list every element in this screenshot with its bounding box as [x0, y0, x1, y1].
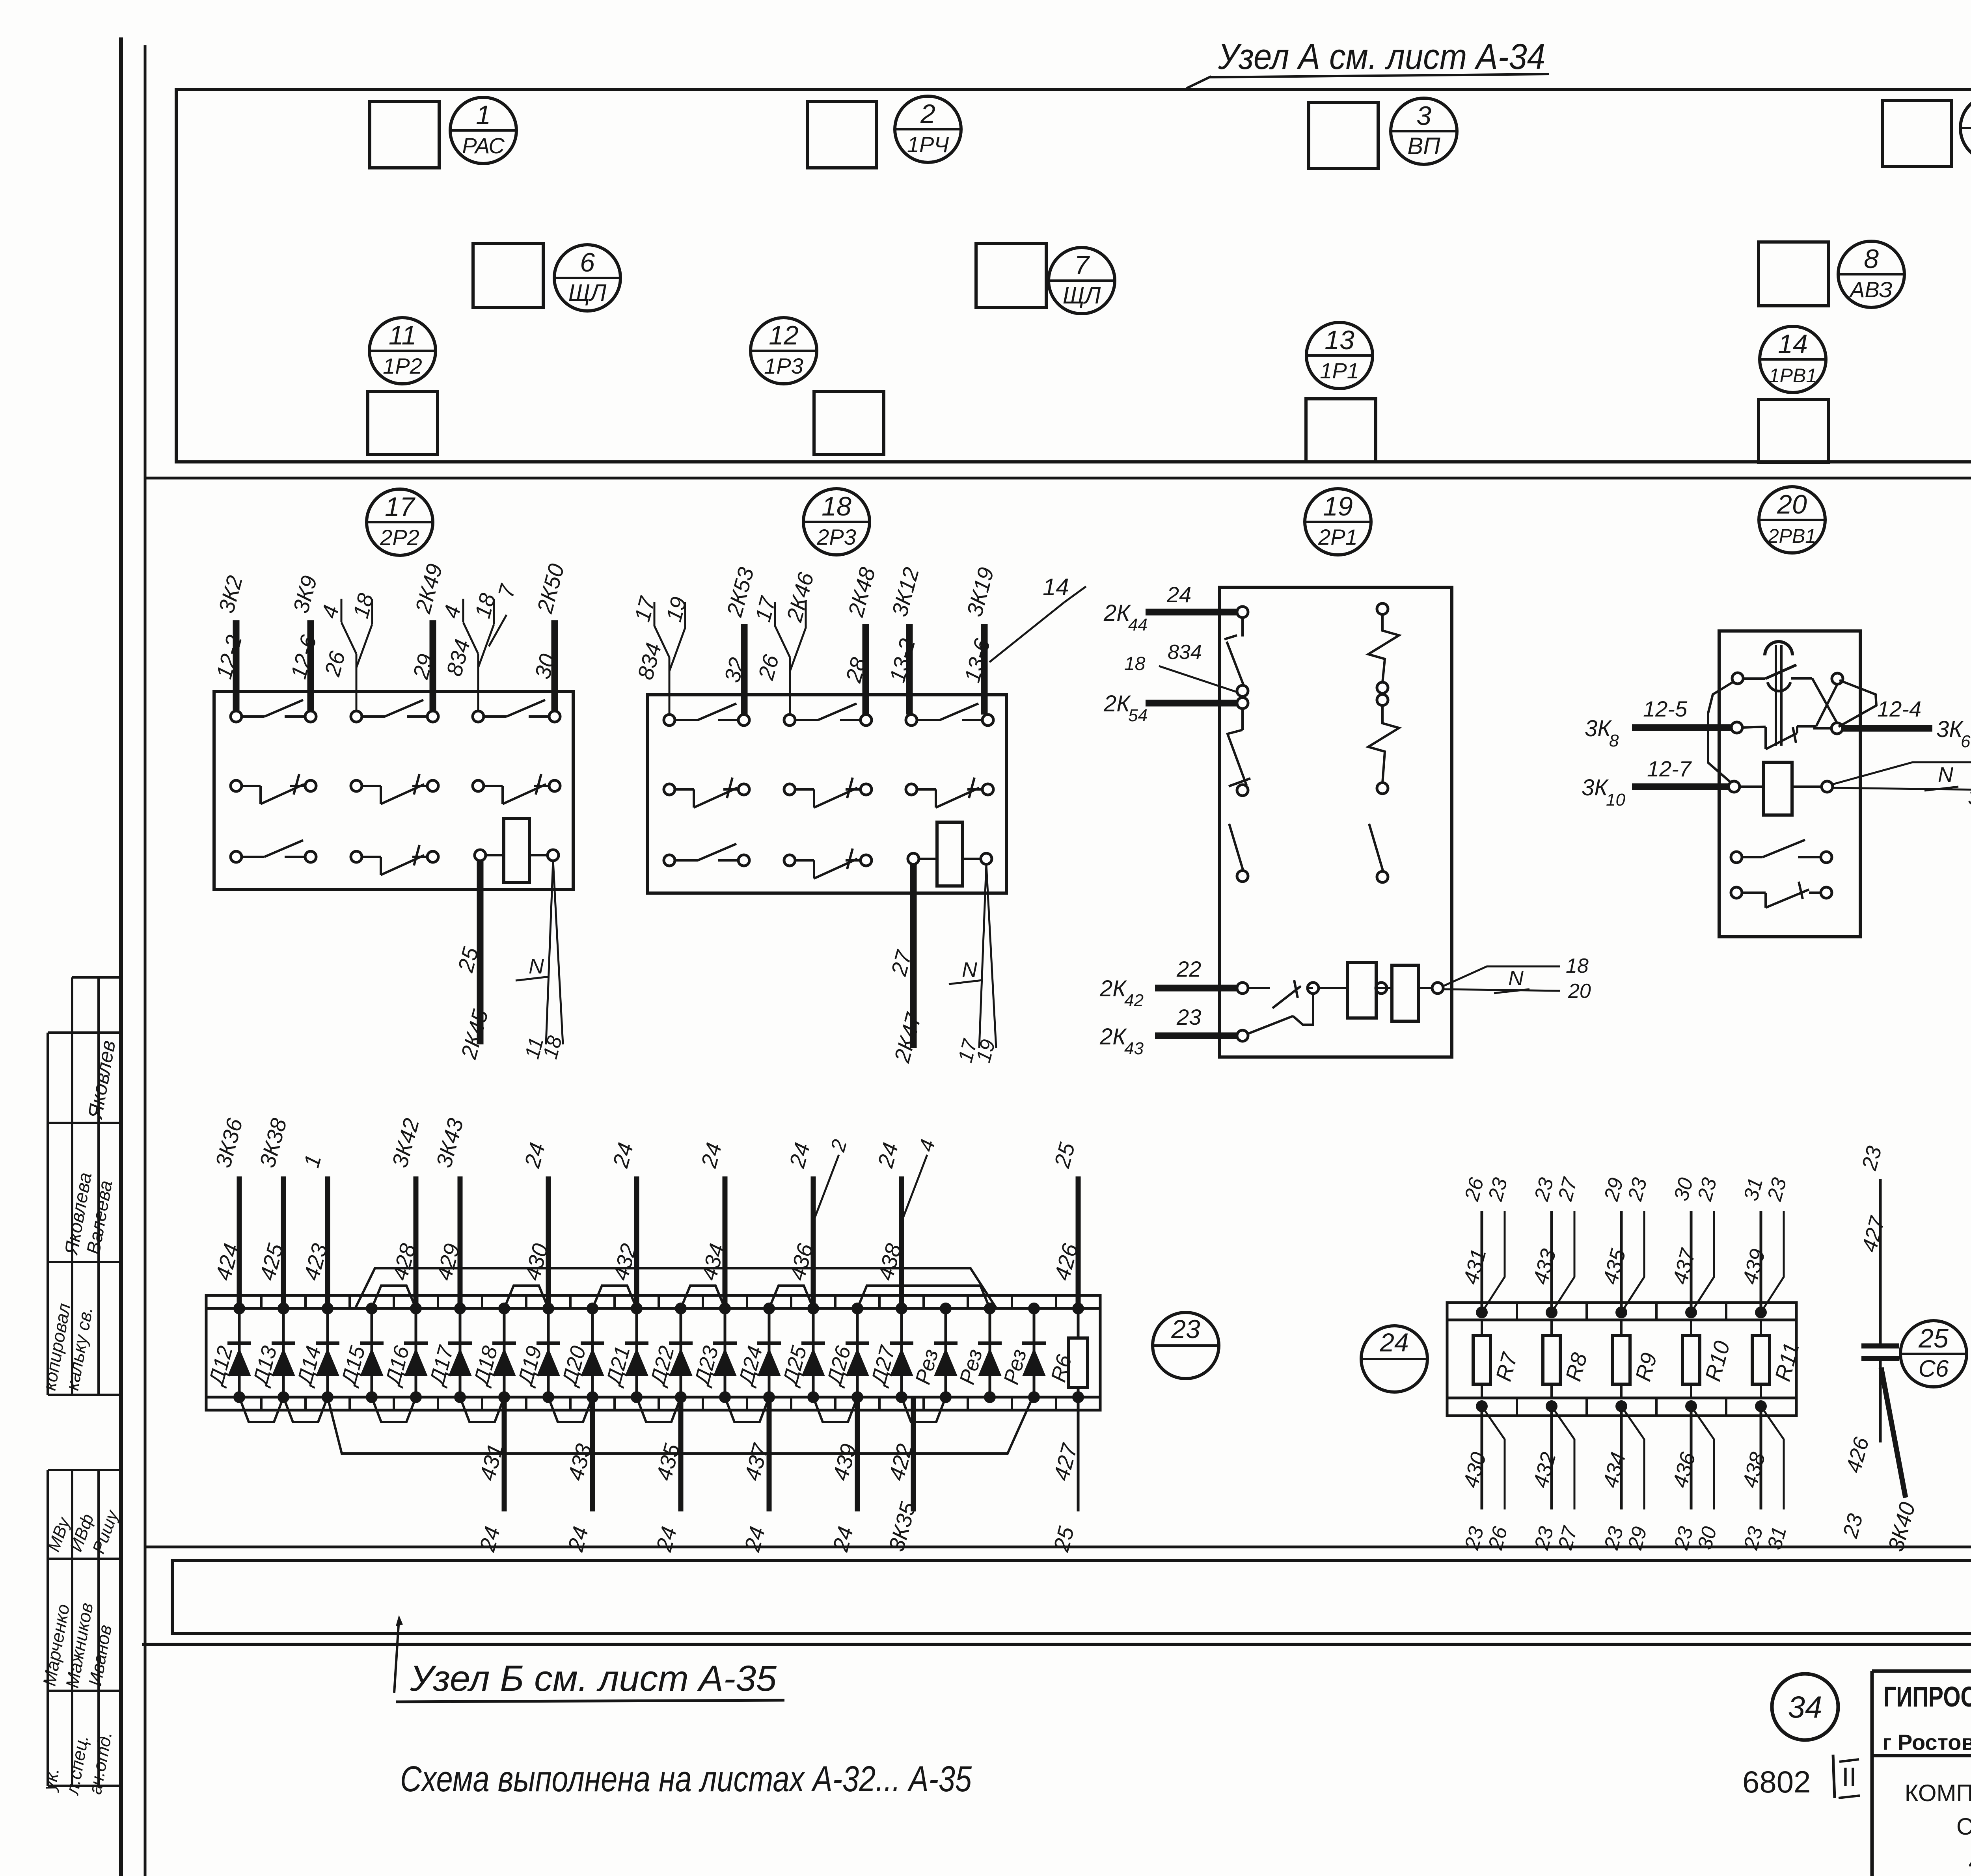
diode Рез (cell 16)	[911, 1303, 958, 1403]
resistor R11	[1752, 1306, 1804, 1412]
id circle 8/АВЗ	[1838, 241, 1904, 307]
svg-text:1Р2: 1Р2	[383, 354, 422, 378]
id circle 4/2РЧ	[1960, 95, 1971, 161]
id circle 3/ВП	[1391, 98, 1457, 164]
svg-text:4К - 10А: 4К - 10А	[1969, 1849, 1971, 1875]
wire 422/3К35 from diode array bottom (cell 15)	[884, 1397, 921, 1554]
relay 17/2P2 contact box	[211, 561, 573, 1062]
svg-text:14: 14	[1778, 329, 1808, 359]
svg-text:1РЧ: 1РЧ	[907, 132, 949, 157]
id circle 20/2РВ1	[1759, 487, 1825, 553]
id circle 13/1Р1	[1306, 322, 1373, 389]
jumper wires above diode array	[355, 1268, 997, 1308]
svg-text:2К: 2К	[1103, 600, 1131, 626]
svg-text:12: 12	[769, 320, 799, 350]
wire 426/25 to diode array top (cell 19)	[1049, 1140, 1083, 1308]
wires 437/30/23 to R10 top	[1668, 1175, 1721, 1312]
resistor R8	[1543, 1306, 1592, 1412]
svg-text:12-5: 12-5	[1643, 696, 1688, 721]
svg-text:6802: 6802	[1742, 1764, 1811, 1799]
svg-text:44: 44	[1128, 615, 1148, 635]
svg-text:АВЗ: АВЗ	[1849, 277, 1893, 302]
id circle 18/2Р3	[803, 489, 870, 555]
wire 429/3К43 to diode array top (cell 5)	[431, 1116, 468, 1308]
wires 439/31/23 to R11 top	[1738, 1175, 1791, 1312]
resistor R7	[1473, 1306, 1522, 1412]
panel outline (top frame)	[176, 89, 1971, 462]
wires 434/23/29 from R9 bottom	[1598, 1406, 1652, 1552]
svg-text:43: 43	[1124, 1039, 1144, 1058]
svg-text:N: N	[1508, 966, 1524, 990]
svg-text:12-7: 12-7	[1647, 756, 1692, 781]
id circle 1/РАС	[450, 97, 516, 164]
wire 2K44/24 into relay 19	[1146, 609, 1237, 616]
svg-text:г Ростов-на-Дону 1976 г.: г Ростов-на-Дону 1976 г.	[1882, 1730, 1971, 1755]
apparatus square 3/ВП	[1309, 102, 1378, 169]
svg-text:2К: 2К	[1099, 976, 1127, 1001]
svg-text:2Р3: 2Р3	[816, 525, 856, 549]
signature table grid	[48, 977, 121, 1786]
svg-text:Узел А см. лист А-34: Узел А см. лист А-34	[1218, 37, 1545, 77]
diode Д15 (cell 3)	[336, 1303, 384, 1403]
svg-text:1РВ1: 1РВ1	[1769, 365, 1817, 387]
svg-text:23: 23	[1171, 1314, 1200, 1344]
wires 433/23/27 to R8 top	[1529, 1174, 1582, 1312]
diode Д27 (cell 15)	[866, 1303, 913, 1403]
diode Рез (cell 18)	[999, 1303, 1046, 1403]
wire 424/3К36 to diode array top (cell 0)	[211, 1115, 248, 1308]
wire 438/24 to diode array top (cell 15)	[872, 1140, 906, 1308]
bottom band lower line	[142, 1643, 1971, 1646]
id circle 2/1РЧ	[895, 96, 961, 162]
wire 433/24 from diode array bottom (cell 8)	[563, 1397, 596, 1554]
diode Д13 (cell 1)	[248, 1303, 295, 1403]
svg-text:19: 19	[1323, 491, 1353, 521]
diode Рез (cell 17)	[955, 1303, 1002, 1403]
diode Д19 (cell 7)	[513, 1303, 560, 1403]
svg-text:РАС: РАС	[462, 133, 505, 158]
wire 3K8/12-5 into relay 20	[1632, 724, 1731, 731]
svg-text:ЩЛ: ЩЛ	[1063, 282, 1101, 309]
resistor R6 (cell 19)	[1047, 1303, 1088, 1403]
bottom band upper line	[145, 1546, 1971, 1548]
sheet left border line outer	[144, 45, 147, 1876]
apparatus square 1/РАС	[370, 102, 439, 168]
svg-text:834: 834	[1168, 641, 1202, 664]
svg-text:N: N	[529, 955, 544, 978]
wire 432/24 to diode array top (cell 9)	[607, 1140, 641, 1308]
relay 20/2PB1 time relay box	[1708, 631, 1876, 937]
wire 423/1 to diode array top (cell 2)	[299, 1152, 332, 1308]
stamp circle 34	[1772, 1674, 1838, 1740]
resistor R9	[1613, 1306, 1662, 1412]
section separator line	[145, 477, 1971, 480]
svg-text:13: 13	[1325, 325, 1354, 355]
apparatus square 8/АВЗ	[1759, 242, 1829, 306]
svg-text:3К: 3К	[1585, 716, 1612, 741]
apparatus square 4/2РЧ	[1882, 100, 1952, 167]
wire 434/24 to diode array top (cell 11)	[696, 1140, 729, 1308]
apparatus square 12/1Р3	[814, 391, 884, 454]
svg-text:СТАНЦИЯ: СТАНЦИЯ	[1956, 1813, 1971, 1840]
svg-text:6: 6	[580, 248, 595, 277]
resistor R10	[1682, 1306, 1734, 1412]
svg-text:3К: 3К	[1936, 717, 1964, 742]
svg-text:42: 42	[1124, 991, 1144, 1010]
diode Д25 (cell 13)	[778, 1303, 825, 1403]
svg-text:1: 1	[476, 100, 491, 130]
svg-text:N: N	[962, 958, 978, 982]
apparatus square 11/1Р2	[368, 391, 438, 454]
diode Д22 (cell 10)	[645, 1303, 693, 1403]
title block grid	[1872, 1664, 1971, 1876]
svg-text:II: II	[1842, 1762, 1857, 1792]
svg-text:24: 24	[1379, 1328, 1408, 1357]
svg-text:2: 2	[920, 99, 935, 129]
svg-text:18: 18	[1124, 653, 1146, 674]
id circle 12/1Р3	[751, 318, 817, 384]
svg-text:34: 34	[1788, 1690, 1822, 1724]
svg-text:2К: 2К	[1103, 691, 1131, 717]
wire 431/24 from diode array bottom (cell 6)	[474, 1397, 508, 1554]
svg-text:2Р1: 2Р1	[1318, 525, 1358, 549]
svg-text:18: 18	[1566, 955, 1589, 977]
svg-text:22: 22	[1176, 957, 1201, 981]
svg-text:3К: 3К	[1968, 785, 1971, 810]
svg-text:20: 20	[1568, 980, 1591, 1003]
svg-text:25: 25	[1918, 1323, 1949, 1353]
relay 18/2P3 contact box	[630, 565, 1006, 1065]
diode Д20 (cell 8)	[557, 1303, 604, 1403]
svg-text:КОМПРЕССОРНАЯ: КОМПРЕССОРНАЯ	[1905, 1780, 1971, 1806]
svg-text:Схема выполнена на листах: Схема выполнена на листах А-32... А-35	[400, 1759, 972, 1799]
svg-text:ук.: ук.	[39, 1766, 63, 1793]
relay 19/2P1 contact box	[1220, 587, 1452, 1057]
svg-text:10: 10	[1606, 790, 1625, 810]
wires 438/23/31 from R11 bottom	[1738, 1406, 1791, 1552]
svg-text:1Р3: 1Р3	[764, 354, 803, 378]
wire 439/24 from diode array bottom (cell 14)	[827, 1397, 861, 1554]
diode Д23 (cell 11)	[689, 1303, 737, 1403]
id circle 25/C6	[1900, 1321, 1967, 1387]
thin branch label 4 at cell 15	[902, 1155, 927, 1222]
svg-text:17: 17	[385, 492, 415, 522]
wire 436/24 to diode array top (cell 13)	[784, 1140, 818, 1308]
svg-text:20: 20	[1777, 489, 1807, 519]
relay 20 output wires 19 / N / 21	[1833, 762, 1971, 784]
node B arrow	[394, 1619, 399, 1693]
svg-text:24: 24	[1166, 582, 1191, 607]
wires 432/23/27 from R8 bottom	[1529, 1406, 1582, 1552]
diode Д18 (cell 6)	[469, 1303, 516, 1403]
apparatus square 2/1РЧ	[807, 102, 877, 168]
id circle 17/2Р2	[367, 489, 433, 555]
node B empty rectangle	[172, 1561, 1971, 1634]
apparatus square 7/ЩЛ	[976, 244, 1046, 307]
wire 2K42/22 into relay 19	[1155, 985, 1237, 992]
wire 3K10/12-7 into relay 20	[1632, 784, 1729, 790]
thin branch label 2 at cell 13	[813, 1155, 839, 1222]
svg-text:2РВ1: 2РВ1	[1768, 525, 1816, 547]
id circle 19/2Р1	[1305, 489, 1371, 555]
svg-text:14: 14	[1043, 574, 1069, 600]
id circle 24	[1361, 1326, 1427, 1392]
svg-text:8: 8	[1864, 244, 1879, 274]
svg-text:ВП: ВП	[1407, 133, 1440, 159]
wire 2K54/834/18 into relay 19	[1146, 700, 1237, 707]
diode Д21 (cell 9)	[601, 1303, 648, 1403]
wire 435/24 from diode array bottom (cell 10)	[651, 1397, 685, 1554]
wire 425/3К38 to diode array top (cell 1)	[255, 1116, 292, 1308]
resistor ladder frame	[1447, 1303, 1796, 1416]
wires 430/23/26 from R7 bottom	[1459, 1406, 1512, 1552]
id circle 7/ЩЛ	[1049, 248, 1115, 314]
apparatus square 13/1Р1	[1306, 399, 1376, 462]
svg-text:3: 3	[1416, 101, 1431, 131]
wire 437/24 from diode array bottom (cell 12)	[739, 1397, 773, 1554]
jumper wires below diode array	[239, 1397, 1033, 1454]
diode Д16 (cell 4)	[380, 1303, 428, 1403]
svg-text:8: 8	[1609, 731, 1619, 750]
svg-text:6: 6	[1961, 732, 1971, 751]
apparatus square 6/ЩЛ	[473, 244, 543, 307]
svg-text:Узел Б см. лист А-35: Узел Б см. лист А-35	[410, 1658, 777, 1699]
svg-text:12-4: 12-4	[1877, 696, 1921, 721]
diode Д17 (cell 5)	[425, 1303, 472, 1403]
relay 19 output wires 18 / N / 20	[1443, 966, 1560, 986]
svg-text:2К: 2К	[1099, 1024, 1127, 1050]
id circle 6/ЩЛ	[554, 245, 620, 311]
id circle 14/1РВ1	[1760, 326, 1826, 393]
wire 2K43/23 into relay 19	[1155, 1033, 1237, 1039]
wire 12-4/3K6 out of relay 20	[1842, 725, 1932, 732]
apparatus square 14/1РВ1	[1759, 400, 1828, 463]
svg-text:ГИПРОСТРОЙДОРМАШ: ГИПРОСТРОЙДОРМАШ	[1883, 1681, 1971, 1713]
svg-text:N: N	[1938, 763, 1954, 787]
svg-text:11: 11	[389, 320, 417, 350]
wire 430/24 to diode array top (cell 7)	[519, 1140, 553, 1308]
wire 427/25 from diode array bottom (cell 19)	[1048, 1397, 1082, 1554]
wire 428/3К42 to diode array top (cell 4)	[387, 1116, 424, 1308]
svg-text:ЩЛ: ЩЛ	[568, 279, 607, 306]
svg-text:1Р1: 1Р1	[1320, 358, 1359, 383]
svg-text:23: 23	[1176, 1005, 1201, 1029]
svg-text:54: 54	[1128, 706, 1148, 725]
sheet left border line inner	[119, 37, 123, 1876]
svg-text:С6: С6	[1919, 1355, 1949, 1382]
diode array ladder frame	[206, 1295, 1100, 1410]
diode Д26 (cell 14)	[822, 1303, 869, 1403]
svg-text:3К: 3К	[1582, 775, 1609, 800]
wires 436/23/30 from R10 bottom	[1668, 1406, 1721, 1552]
wires 431/26/23 to R7 top	[1459, 1175, 1512, 1312]
svg-text:7: 7	[1074, 250, 1090, 280]
id circle 23	[1153, 1312, 1219, 1379]
svg-text:18: 18	[822, 491, 851, 521]
diode Д12 (cell 0)	[204, 1303, 251, 1403]
capacitor C6	[1838, 1144, 1920, 1554]
id circle 11/1Р2	[369, 318, 436, 384]
diode Д24 (cell 12)	[734, 1303, 781, 1403]
svg-text:2Р2: 2Р2	[380, 525, 419, 550]
wires 435/29/23 to R9 top	[1598, 1175, 1652, 1312]
diode Д14 (cell 2)	[292, 1303, 339, 1403]
